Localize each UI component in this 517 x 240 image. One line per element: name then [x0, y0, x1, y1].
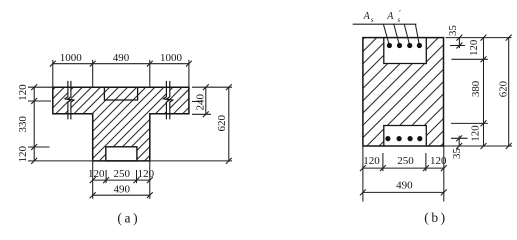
svg-text:250: 250: [397, 155, 414, 167]
svg-text:35: 35: [451, 148, 463, 159]
white cut strip of left break: [68, 87, 71, 114]
bottom rebar box: [384, 126, 427, 147]
svg-text:120: 120: [88, 168, 105, 180]
mini dim 35 top: [458, 38, 460, 48]
svg-text:120: 120: [468, 40, 480, 56]
white cut strip of right break: [166, 87, 169, 114]
svg-text:120: 120: [17, 145, 29, 162]
top notch outline in flange: [104, 87, 137, 100]
svg-text:′: ′: [399, 8, 401, 17]
ext line section top: [446, 37, 511, 39]
svg-text:(b): (b): [424, 210, 448, 225]
svg-text:120: 120: [469, 125, 481, 141]
svg-text:490: 490: [113, 52, 130, 64]
right dimension 620: [228, 87, 230, 161]
svg-text:A: A: [363, 11, 371, 22]
svg-text:240: 240: [195, 93, 207, 110]
leader lines to top bars: [383, 24, 419, 45]
svg-text:620: 620: [216, 114, 228, 131]
top rebar box: [384, 38, 427, 64]
svg-text:120: 120: [17, 84, 29, 101]
dim texts (a): [17, 52, 228, 195]
bottom dim line 120/250/120 (b): [363, 167, 444, 169]
ext line section bottom: [444, 145, 512, 147]
svg-text:490: 490: [396, 180, 413, 192]
ext line top box bottom: [452, 58, 487, 60]
hatching of T-section (a): [53, 87, 189, 161]
svg-text:380: 380: [470, 81, 482, 97]
bottom dim line 490 (b): [363, 191, 444, 193]
svg-text:1000: 1000: [60, 52, 83, 64]
right break line pair: [163, 82, 169, 119]
top rebar dots: [387, 43, 422, 48]
svg-text:490: 490: [114, 183, 131, 195]
svg-text:s: s: [371, 16, 374, 24]
svg-text:120: 120: [138, 168, 155, 180]
mini dim 35 bottom: [458, 136, 460, 146]
dim texts (b): [363, 25, 509, 191]
T-section outline (a): [53, 87, 189, 161]
ext line bottom box top: [452, 122, 488, 124]
svg-text:120: 120: [430, 155, 447, 167]
right dimension 240: [205, 87, 207, 114]
left dimension chain 120/330/120: [33, 87, 35, 161]
leader shelf line for As labels: [353, 23, 416, 25]
svg-text:(a): (a): [117, 210, 140, 225]
svg-text:35: 35: [447, 25, 459, 36]
svg-text:A: A: [386, 11, 394, 22]
top dimension line 1000/490/1000: [53, 63, 189, 65]
svg-text:1000: 1000: [160, 52, 183, 64]
svg-text:250: 250: [114, 168, 131, 180]
dim line 620 (b): [508, 38, 510, 146]
left break line pair: [65, 82, 71, 119]
long bottom extension line: [29, 160, 232, 162]
bottom notch (hole) in web: [106, 147, 137, 161]
bottom rebar dots: [385, 136, 422, 141]
hatching of rectangular section (b): [363, 38, 444, 146]
bottom dimension line 120/250/120: [93, 179, 150, 181]
right chain line 120/380/120: [483, 38, 485, 146]
svg-text:330: 330: [17, 116, 29, 133]
bottom dimension line 490: [93, 194, 150, 196]
svg-text:120: 120: [363, 155, 380, 167]
section outline (b): [363, 38, 444, 146]
svg-text:620: 620: [497, 81, 509, 97]
